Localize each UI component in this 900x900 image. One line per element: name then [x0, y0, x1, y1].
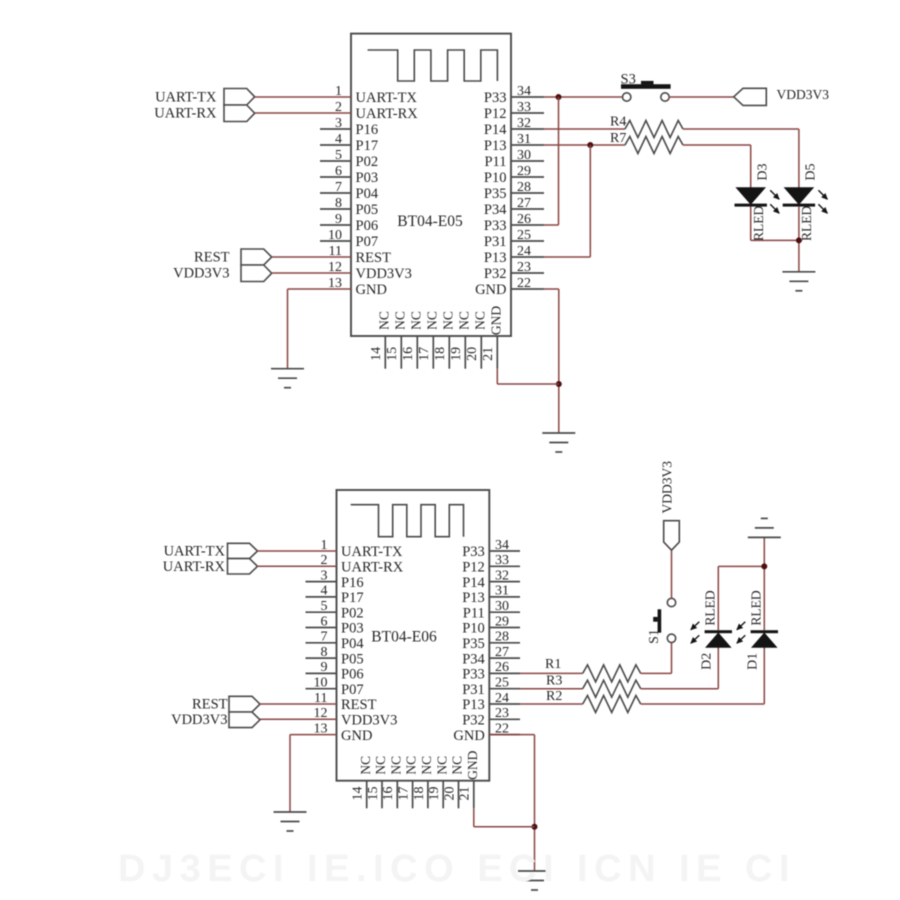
- svg-text:P07: P07: [341, 682, 364, 698]
- svg-text:P31: P31: [484, 234, 507, 250]
- svg-text:17: 17: [417, 347, 432, 361]
- svg-text:S1: S1: [647, 629, 662, 644]
- svg-text:8: 8: [321, 645, 328, 660]
- svg-text:P32: P32: [484, 266, 507, 282]
- svg-text:34: 34: [517, 84, 531, 99]
- svg-text:UART-TX: UART-TX: [341, 544, 403, 560]
- svg-text:4: 4: [321, 584, 328, 599]
- svg-text:7: 7: [321, 630, 328, 645]
- svg-text:P35: P35: [462, 636, 485, 652]
- svg-text:GND: GND: [475, 282, 506, 298]
- svg-text:RLED: RLED: [751, 206, 766, 241]
- svg-text:NC: NC: [408, 311, 423, 330]
- svg-text:VDD3V3: VDD3V3: [659, 461, 674, 514]
- svg-text:9: 9: [321, 660, 328, 675]
- svg-text:32: 32: [495, 568, 509, 583]
- svg-text:GND: GND: [356, 282, 387, 298]
- svg-text:20: 20: [442, 787, 457, 801]
- svg-text:P35: P35: [484, 186, 507, 202]
- svg-text:P10: P10: [462, 621, 485, 637]
- svg-text:UART-RX: UART-RX: [154, 106, 217, 122]
- svg-text:BT04-E05: BT04-E05: [397, 213, 463, 230]
- svg-text:NC: NC: [373, 756, 388, 775]
- svg-text:P33: P33: [484, 90, 507, 106]
- svg-text:UART-TX: UART-TX: [164, 544, 226, 560]
- svg-text:NC: NC: [450, 756, 465, 775]
- svg-text:5: 5: [335, 148, 342, 163]
- svg-text:P31: P31: [462, 682, 485, 698]
- svg-text:18: 18: [433, 347, 448, 361]
- svg-text:18: 18: [412, 787, 427, 801]
- svg-text:6: 6: [321, 614, 328, 629]
- svg-text:RLED: RLED: [703, 590, 718, 625]
- svg-text:NC: NC: [392, 311, 407, 330]
- svg-text:VDD3V3: VDD3V3: [341, 713, 397, 729]
- svg-text:P03: P03: [341, 621, 364, 637]
- svg-text:16: 16: [381, 787, 396, 801]
- svg-text:NC: NC: [472, 311, 487, 330]
- svg-text:D3: D3: [756, 163, 771, 180]
- svg-text:P11: P11: [463, 605, 485, 621]
- svg-text:P33: P33: [484, 218, 507, 234]
- svg-text:REST: REST: [194, 250, 230, 266]
- svg-text:P10: P10: [484, 170, 507, 186]
- svg-text:GND: GND: [453, 728, 484, 744]
- svg-text:NC: NC: [440, 311, 455, 330]
- svg-text:BT04-E06: BT04-E06: [371, 629, 437, 646]
- svg-text:UART-RX: UART-RX: [163, 559, 226, 575]
- svg-text:REST: REST: [341, 697, 377, 713]
- svg-text:P17: P17: [356, 138, 379, 154]
- svg-text:17: 17: [397, 787, 412, 801]
- svg-text:NC: NC: [388, 756, 403, 775]
- svg-text:32: 32: [517, 116, 531, 131]
- svg-text:P03: P03: [356, 170, 379, 186]
- svg-text:19: 19: [449, 347, 464, 361]
- svg-text:NC: NC: [376, 311, 391, 330]
- svg-text:15: 15: [366, 787, 381, 801]
- svg-text:VDD3V3: VDD3V3: [171, 712, 227, 728]
- svg-text:GND: GND: [465, 750, 480, 779]
- svg-text:RLED: RLED: [749, 590, 764, 625]
- svg-text:P07: P07: [356, 234, 379, 250]
- svg-text:P04: P04: [341, 636, 364, 652]
- svg-text:R1: R1: [545, 657, 561, 672]
- svg-text:26: 26: [495, 660, 509, 675]
- svg-text:P33: P33: [462, 544, 485, 560]
- svg-text:8: 8: [335, 196, 342, 211]
- svg-text:25: 25: [517, 228, 531, 243]
- svg-text:P34: P34: [484, 202, 507, 218]
- svg-text:23: 23: [517, 260, 531, 275]
- svg-text:25: 25: [495, 676, 509, 691]
- svg-text:P02: P02: [341, 605, 364, 621]
- svg-text:NC: NC: [404, 756, 419, 775]
- svg-text:9: 9: [335, 212, 342, 227]
- svg-text:10: 10: [314, 676, 328, 691]
- svg-text:UART-RX: UART-RX: [341, 560, 404, 576]
- svg-text:VDD3V3: VDD3V3: [173, 266, 229, 282]
- svg-text:R2: R2: [546, 689, 562, 704]
- svg-text:P11: P11: [484, 154, 506, 170]
- svg-text:P17: P17: [341, 590, 364, 606]
- svg-text:GND: GND: [488, 306, 503, 335]
- svg-text:DJ3ECI IE.ICO ECI ICN IE CI: DJ3ECI IE.ICO ECI ICN IE CI: [118, 848, 796, 890]
- svg-text:VDD3V3: VDD3V3: [356, 266, 412, 282]
- svg-text:P32: P32: [462, 713, 485, 729]
- svg-text:P16: P16: [341, 575, 364, 591]
- svg-text:NC: NC: [419, 756, 434, 775]
- svg-text:26: 26: [517, 212, 531, 227]
- svg-text:UART-TX: UART-TX: [356, 90, 418, 106]
- svg-text:29: 29: [495, 614, 509, 629]
- svg-text:29: 29: [517, 164, 531, 179]
- svg-text:14: 14: [369, 347, 384, 361]
- svg-text:P14: P14: [484, 122, 507, 138]
- svg-text:R4: R4: [610, 115, 626, 130]
- svg-text:P06: P06: [341, 667, 364, 683]
- svg-text:VDD3V3: VDD3V3: [777, 87, 830, 102]
- svg-text:P02: P02: [356, 154, 379, 170]
- svg-text:R7: R7: [610, 131, 626, 146]
- svg-text:P33: P33: [462, 667, 485, 683]
- svg-text:P14: P14: [462, 575, 485, 591]
- svg-text:14: 14: [351, 787, 366, 801]
- svg-text:5: 5: [321, 599, 328, 614]
- svg-text:22: 22: [517, 276, 531, 291]
- svg-text:21: 21: [481, 347, 496, 361]
- svg-text:4: 4: [335, 132, 342, 147]
- svg-text:REST: REST: [356, 250, 392, 266]
- svg-text:P06: P06: [356, 218, 379, 234]
- svg-text:15: 15: [385, 347, 400, 361]
- svg-text:NC: NC: [358, 756, 373, 775]
- svg-text:P13: P13: [484, 138, 507, 154]
- svg-text:21: 21: [458, 787, 473, 801]
- svg-text:28: 28: [517, 180, 531, 195]
- svg-text:7: 7: [335, 180, 342, 195]
- svg-text:D2: D2: [700, 653, 715, 670]
- svg-text:20: 20: [465, 347, 480, 361]
- svg-text:P05: P05: [356, 202, 379, 218]
- svg-text:P16: P16: [356, 122, 379, 138]
- svg-text:P34: P34: [462, 651, 485, 667]
- svg-text:GND: GND: [341, 728, 372, 744]
- svg-text:NC: NC: [456, 311, 471, 330]
- svg-text:P12: P12: [462, 560, 485, 576]
- svg-text:P12: P12: [484, 106, 507, 122]
- svg-text:19: 19: [427, 787, 442, 801]
- svg-text:3: 3: [321, 568, 328, 583]
- svg-text:16: 16: [401, 347, 416, 361]
- svg-text:R3: R3: [546, 673, 562, 688]
- svg-text:P05: P05: [341, 651, 364, 667]
- svg-text:P13: P13: [462, 590, 485, 606]
- svg-text:28: 28: [495, 630, 509, 645]
- svg-text:24: 24: [495, 691, 509, 706]
- svg-text:23: 23: [495, 706, 509, 721]
- svg-text:27: 27: [517, 196, 531, 211]
- svg-text:31: 31: [495, 584, 509, 599]
- svg-text:P04: P04: [356, 186, 379, 202]
- svg-text:33: 33: [495, 553, 509, 568]
- svg-text:30: 30: [517, 148, 531, 163]
- svg-text:UART-RX: UART-RX: [356, 106, 419, 122]
- svg-text:P13: P13: [484, 250, 507, 266]
- svg-text:3: 3: [335, 116, 342, 131]
- svg-text:30: 30: [495, 599, 509, 614]
- svg-text:D5: D5: [803, 163, 818, 180]
- svg-text:31: 31: [517, 132, 531, 147]
- svg-text:P13: P13: [462, 697, 485, 713]
- svg-text:RLED: RLED: [799, 206, 814, 241]
- svg-text:33: 33: [517, 100, 531, 115]
- svg-text:34: 34: [495, 538, 509, 553]
- svg-text:NC: NC: [424, 311, 439, 330]
- svg-text:27: 27: [495, 645, 509, 660]
- svg-text:24: 24: [517, 244, 531, 259]
- svg-text:10: 10: [328, 228, 342, 243]
- svg-text:UART-TX: UART-TX: [155, 90, 217, 106]
- svg-text:D1: D1: [746, 653, 761, 670]
- svg-text:REST: REST: [192, 697, 228, 713]
- svg-text:NC: NC: [434, 756, 449, 775]
- svg-text:6: 6: [335, 164, 342, 179]
